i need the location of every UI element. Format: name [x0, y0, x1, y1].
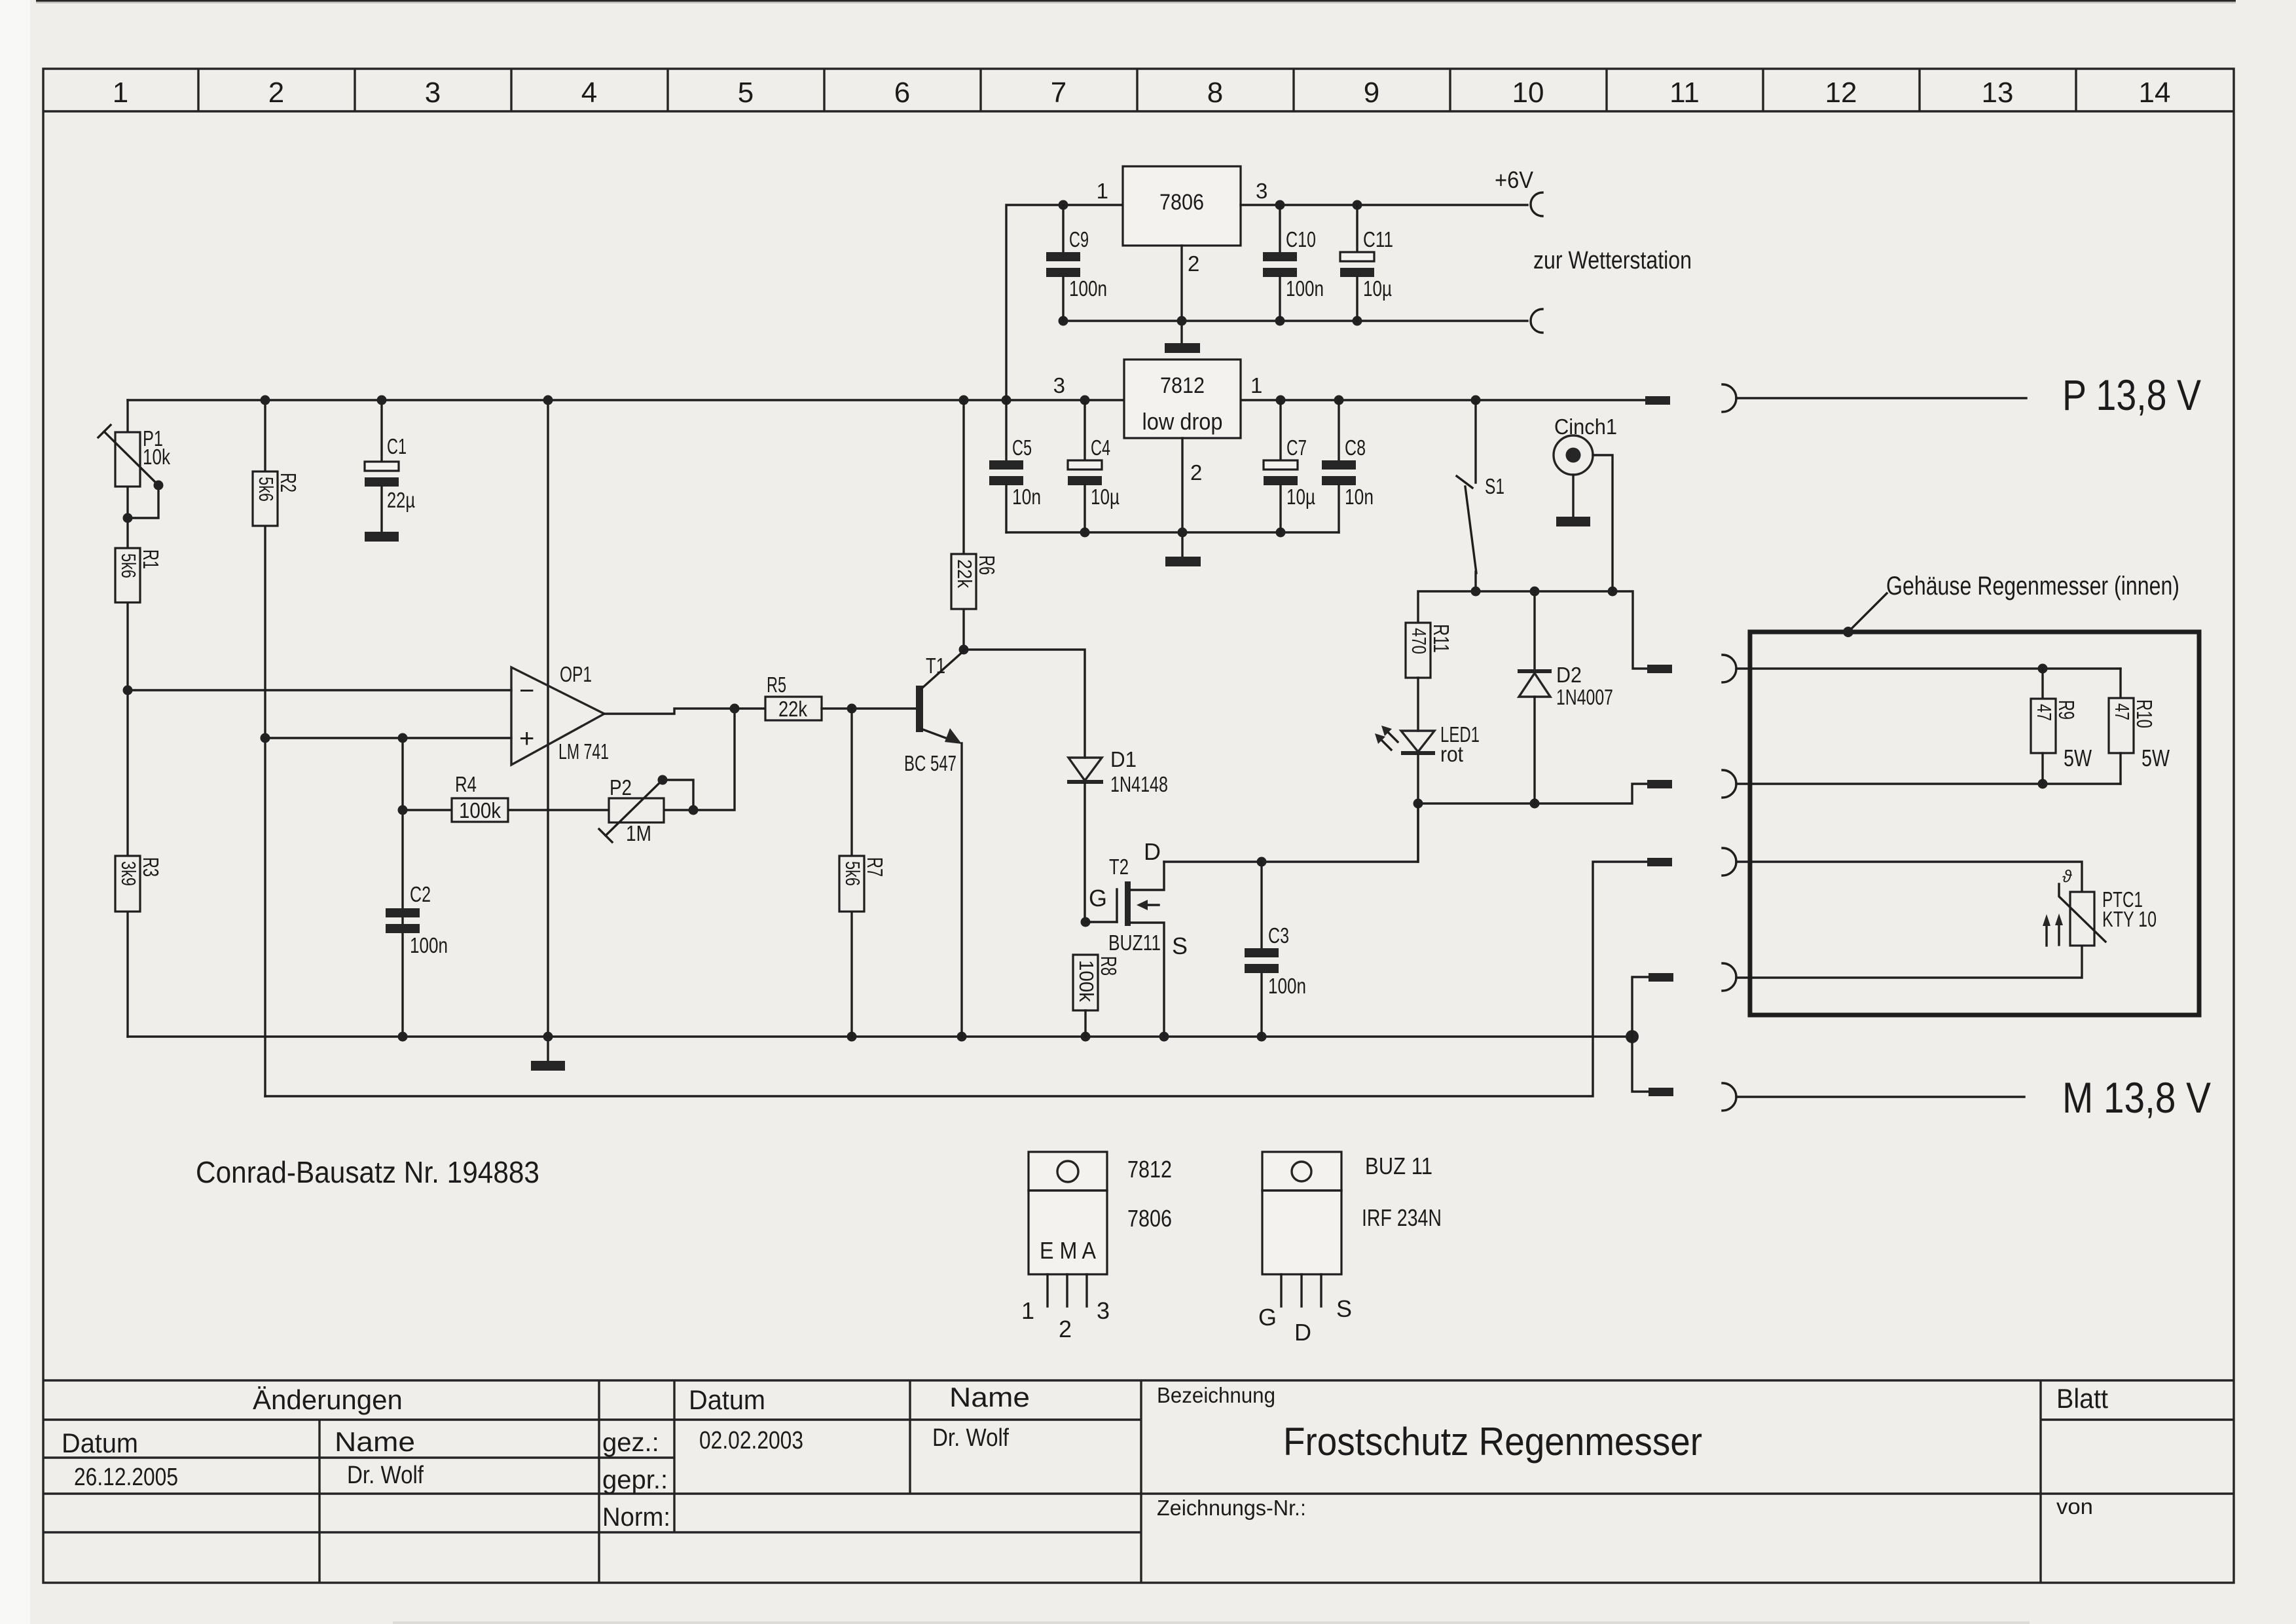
svg-text:5W: 5W [2141, 745, 2170, 771]
junction dots on ground rail [398, 1032, 408, 1042]
svg-text:C10: C10 [1286, 227, 1316, 251]
svg-text:G: G [1258, 1304, 1277, 1331]
capacitor C5 [989, 400, 1041, 532]
potentiometer P1 [98, 425, 170, 518]
connector stub ground B [1649, 1088, 1673, 1096]
connector arc M [1722, 848, 1736, 876]
capacitor C3 [1245, 862, 1306, 1037]
resistor R2 [253, 471, 301, 526]
svg-text:Norm:: Norm: [602, 1503, 670, 1532]
connector stub M rail [1647, 858, 1672, 866]
svg-text:2: 2 [1059, 1316, 1072, 1342]
connector stub ground A [1649, 973, 1673, 982]
svg-text:+6V: +6V [1495, 166, 1533, 193]
wire P rail left segment [128, 399, 1124, 401]
svg-text:47: 47 [2111, 703, 2134, 720]
svg-text:11: 11 [1669, 77, 1700, 109]
wire bottom ground rail [128, 1035, 1632, 1037]
junction C10 tap [1275, 200, 1285, 210]
wire 7806 pin2 to ground [1180, 246, 1182, 343]
svg-text:Zeichnungs-Nr.:: Zeichnungs-Nr.: [1157, 1496, 1306, 1520]
svg-text:gez.:: gez.: [602, 1428, 659, 1457]
svg-text:D2: D2 [1556, 663, 1582, 687]
wire R4 P2 feedback line [403, 709, 735, 810]
svg-text:D1: D1 [1110, 747, 1137, 771]
svg-text:ϑ: ϑ [2062, 866, 2072, 886]
svg-text:100n: 100n [1069, 276, 1107, 301]
capacitor C4 [1068, 400, 1120, 532]
connector stub R9 feed [1647, 665, 1672, 673]
wire R9 R10 top line [1736, 667, 2121, 669]
wire M connector to PTC1 [1736, 862, 2082, 892]
svg-text:R3: R3 [139, 857, 163, 877]
connector stub P rail [1645, 396, 1670, 405]
svg-text:C7: C7 [1286, 435, 1307, 460]
resistor R4 [452, 772, 508, 822]
svg-text:6: 6 [894, 77, 910, 109]
svg-text:−: − [519, 676, 534, 705]
junction P1 wiper tie [123, 513, 133, 523]
svg-text:C9: C9 [1069, 227, 1089, 251]
svg-text:26.12.2005: 26.12.2005 [74, 1464, 178, 1491]
junction S1 bottom [1471, 587, 1481, 597]
junction dots +6V sub rail [1059, 316, 1068, 326]
svg-text:R1: R1 [139, 549, 163, 569]
svg-text:7806: 7806 [1159, 190, 1204, 215]
svg-text:C8: C8 [1345, 435, 1366, 460]
connector arc ground B [1722, 1083, 1736, 1111]
junction plus tap R2 [261, 733, 270, 743]
svg-text:2: 2 [1190, 460, 1202, 485]
resistor R5 [765, 673, 822, 721]
svg-text:R7: R7 [863, 857, 887, 877]
resistor R1 [115, 548, 163, 602]
wire ground to stub A [1632, 977, 1649, 1037]
svg-text:low drop: low drop [1142, 408, 1223, 435]
junction R9 top [2038, 664, 2048, 674]
svg-text:14: 14 [2139, 77, 2171, 109]
svg-text:Frostschutz Regenmesser: Frostschutz Regenmesser [1283, 1420, 1702, 1464]
svg-text:G: G [1089, 885, 1107, 912]
svg-text:22µ: 22µ [387, 488, 415, 512]
wire collector node to D1 [964, 650, 1085, 758]
svg-text:R8: R8 [1097, 956, 1121, 976]
svg-text:D: D [1144, 838, 1161, 865]
ground symbol at OP1 supply [531, 1037, 565, 1071]
svg-text:zur Wetterstation: zur Wetterstation [1533, 247, 1692, 274]
resistor R3 [115, 856, 163, 912]
resistor R11 [1406, 623, 1453, 731]
svg-text:+: + [519, 724, 534, 753]
wire R7 branch vertical [850, 709, 852, 1037]
svg-text:4: 4 [581, 77, 597, 109]
svg-text:Datum: Datum [62, 1428, 138, 1458]
svg-text:BUZ 11: BUZ 11 [1365, 1153, 1432, 1179]
svg-text:OP1: OP1 [560, 662, 592, 686]
svg-text:5: 5 [738, 77, 754, 109]
connector arc +6V return [1531, 309, 1542, 333]
LED LED1 rot [1375, 722, 1480, 803]
wire R9 R10 bottom line [1736, 783, 2121, 784]
junction minus tap [123, 686, 133, 695]
svg-text:5k6: 5k6 [255, 477, 278, 502]
diode D2 1N4007 [1518, 591, 1613, 803]
svg-text:3: 3 [1097, 1297, 1110, 1324]
junction base / R7 [847, 704, 857, 714]
resistor R9 [2031, 669, 2092, 784]
svg-text:5W: 5W [2064, 745, 2092, 771]
svg-text:10: 10 [1512, 77, 1544, 109]
svg-text:C3: C3 [1268, 923, 1289, 948]
svg-text:BC 547: BC 547 [904, 751, 957, 775]
svg-text:2: 2 [268, 77, 284, 109]
svg-text:BUZ11: BUZ11 [1108, 931, 1161, 955]
svg-text:Dr. Wolf: Dr. Wolf [347, 1462, 424, 1489]
wire OP1 output [604, 709, 765, 714]
svg-text:Name: Name [335, 1426, 415, 1457]
svg-text:C1: C1 [387, 434, 407, 458]
svg-text:100n: 100n [410, 933, 448, 957]
connector arc LED node [1722, 770, 1736, 798]
wire R2 branch vertical [264, 400, 266, 1096]
svg-text:47: 47 [2033, 704, 2056, 721]
svg-text:100n: 100n [1268, 974, 1306, 998]
junction R9 bottom [2038, 779, 2048, 789]
svg-text:1: 1 [1250, 373, 1262, 397]
ruler column dividers [198, 69, 2076, 111]
capacitor C1 [365, 400, 415, 532]
svg-text:1: 1 [1021, 1297, 1034, 1324]
connector arc P [1722, 384, 1736, 412]
ground bar under 7806 [1165, 343, 1200, 353]
regulator 7806 U1 [1097, 166, 1268, 276]
connector arc ground A [1722, 963, 1736, 991]
svg-text:Name: Name [949, 1382, 1030, 1412]
capacitor C7 [1264, 400, 1315, 532]
svg-text:1N4148: 1N4148 [1110, 772, 1168, 796]
svg-text:T2: T2 [1109, 855, 1129, 879]
junction dots caps sub rail [1080, 528, 1090, 538]
resistor R6 [951, 400, 999, 650]
svg-text:Cinch1: Cinch1 [1554, 415, 1617, 439]
connector stub LED node [1647, 780, 1672, 788]
wire P 13,8V out [1736, 397, 2026, 399]
op-amp OP1 [511, 662, 609, 765]
svg-text:von: von [2056, 1494, 2093, 1519]
svg-text:8: 8 [1207, 77, 1223, 109]
svg-text:R2: R2 [276, 473, 301, 492]
wire 7806 pin1 feed [1006, 205, 1123, 400]
junction LED bottom [1413, 799, 1423, 809]
wire ground to stub B [1632, 1037, 1649, 1092]
junction OP1 output / feedback [730, 704, 740, 714]
svg-text:S1: S1 [1485, 474, 1504, 498]
svg-text:10n: 10n [1345, 485, 1374, 509]
svg-text:R4: R4 [455, 772, 477, 796]
svg-text:gepr.:: gepr.: [602, 1466, 668, 1494]
svg-text:3: 3 [1256, 179, 1267, 203]
svg-text:R9: R9 [2054, 700, 2079, 720]
resistor R10 [2109, 669, 2170, 784]
svg-text:Dr. Wolf: Dr. Wolf [932, 1424, 1009, 1452]
resistor R8 [1073, 955, 1121, 1037]
capacitor C2 [386, 882, 448, 957]
svg-text:Änderungen: Änderungen [253, 1384, 403, 1415]
junction T2 gate / R8 [1081, 917, 1091, 927]
svg-text:7: 7 [1051, 77, 1066, 109]
junction Cinch drop [1608, 587, 1618, 597]
wire T2 drain line [1164, 803, 1418, 862]
wire minus input line [128, 689, 511, 691]
svg-text:2: 2 [1188, 251, 1199, 276]
svg-text:22k: 22k [778, 697, 807, 721]
svg-text:7806: 7806 [1127, 1205, 1172, 1232]
thermistor PTC1 KTY10 [2043, 866, 2157, 946]
junction D2 top [1530, 587, 1540, 597]
wire R5 to T1 base [822, 707, 916, 709]
junction D2 bottom [1530, 799, 1540, 809]
svg-text:rot: rot [1440, 742, 1463, 766]
svg-text:100k: 100k [459, 798, 501, 822]
svg-text:D: D [1294, 1319, 1311, 1346]
svg-text:Bezeichnung: Bezeichnung [1157, 1383, 1275, 1407]
ruler numbers 1-14 [113, 77, 2171, 109]
Gehaeuse pointer [1843, 593, 1887, 637]
wire LED D2 bottom line to connector [1418, 784, 1647, 803]
svg-text:P2: P2 [610, 775, 632, 800]
capacitor C11 [1340, 205, 1393, 321]
svg-text:10µ: 10µ [1286, 485, 1315, 509]
switch S1 [1457, 400, 1504, 591]
svg-text:470: 470 [1408, 628, 1430, 654]
junction R4 tap [398, 805, 408, 815]
wire plus input line [265, 737, 511, 739]
wire M rail [265, 862, 1647, 1096]
junction C11 tap [1353, 200, 1362, 210]
title block lines [43, 1380, 2234, 1583]
svg-text:3k9: 3k9 [117, 861, 140, 886]
connector arc +6V out [1531, 193, 1542, 216]
svg-text:10µ: 10µ [1091, 485, 1120, 509]
junction plus line / C2 branch [398, 733, 408, 743]
wire M 13,8V out [1736, 1096, 2024, 1098]
svg-text:C4: C4 [1091, 435, 1110, 460]
ground bar under 7812 [1165, 557, 1201, 566]
wire caps sub rail under 7812 [1006, 531, 1339, 533]
junction ground rail right end [1626, 1030, 1639, 1043]
svg-text:R11: R11 [1429, 624, 1453, 653]
svg-text:Conrad-Bausatz Nr. 194883: Conrad-Bausatz Nr. 194883 [196, 1155, 539, 1189]
svg-text:02.02.2003: 02.02.2003 [699, 1427, 803, 1454]
svg-text:LM 741: LM 741 [558, 739, 609, 764]
wire left chain vertical (P1/R1/R3) [126, 400, 128, 1037]
diode D1 1N4148 [1067, 747, 1168, 922]
svg-text:5k6: 5k6 [841, 861, 864, 886]
potentiometer P2 [599, 775, 699, 846]
svg-text:R5: R5 [767, 673, 786, 697]
transistor T1 BC547 [904, 651, 964, 1037]
svg-text:100k: 100k [1075, 960, 1098, 1002]
svg-text:3: 3 [425, 77, 441, 109]
svg-text:P 13,8 V: P 13,8 V [2062, 371, 2201, 419]
junction C9 tap [1059, 200, 1068, 210]
junction dots on P rail [261, 396, 270, 405]
regulator 7812 low drop U2 [1053, 360, 1263, 485]
wire S1 R11 D2 Cinch junction line [1418, 591, 1647, 669]
cinch socket Cinch1 [1554, 415, 1617, 591]
package TO220 regulators [1021, 1152, 1172, 1342]
wire +6V return sub rail [1063, 320, 1527, 322]
capacitor C9 [1046, 205, 1107, 321]
svg-text:IRF 234N: IRF 234N [1362, 1204, 1442, 1231]
svg-text:13: 13 [1982, 77, 2014, 109]
svg-text:9: 9 [1364, 77, 1379, 109]
svg-text:R10: R10 [2132, 699, 2157, 728]
svg-text:3: 3 [1053, 373, 1065, 397]
svg-text:1: 1 [113, 77, 128, 109]
svg-text:E M A: E M A [1040, 1237, 1096, 1264]
wire C2 branch vertical [401, 738, 403, 1037]
wire OP1 supply vertical [547, 400, 549, 1037]
svg-text:M 13,8 V: M 13,8 V [2062, 1073, 2211, 1122]
svg-text:R6: R6 [975, 555, 999, 575]
svg-text:C5: C5 [1012, 435, 1032, 460]
svg-text:S: S [1336, 1295, 1352, 1322]
svg-text:1N4007: 1N4007 [1556, 685, 1613, 709]
ground bar under Cinch1 [1556, 517, 1590, 526]
connector arc R9 feed [1722, 655, 1736, 682]
svg-text:12: 12 [1825, 77, 1857, 109]
svg-text:C11: C11 [1363, 227, 1393, 251]
package TO220 BUZ11 [1258, 1152, 1442, 1346]
wire PTC1 bottom to ground connector [1736, 946, 2082, 978]
svg-text:10n: 10n [1012, 485, 1041, 509]
svg-text:7812: 7812 [1127, 1156, 1172, 1183]
resistor R7 [839, 856, 887, 912]
wire P rail right segment [1241, 399, 1645, 401]
svg-text:100n: 100n [1286, 276, 1324, 301]
svg-text:5k6: 5k6 [117, 553, 140, 578]
ground bar under C1 [365, 532, 399, 542]
svg-text:C2: C2 [410, 882, 431, 906]
transistor T2 BUZ11 [1085, 838, 1188, 1037]
svg-text:T1: T1 [926, 654, 945, 678]
capacitor C10 [1263, 205, 1324, 321]
junction T1 collector [959, 645, 969, 655]
wire 7806 pin3 to +6V [1241, 204, 1527, 206]
svg-text:1: 1 [1097, 179, 1108, 203]
svg-text:Gehäuse Regenmesser (innen): Gehäuse Regenmesser (innen) [1886, 572, 2179, 600]
Gehaeuse box [1750, 632, 2199, 1015]
junction C3 tap on drain line [1257, 857, 1267, 867]
svg-text:KTY 10: KTY 10 [2102, 907, 2157, 931]
wire 7812 pin2 to ground [1181, 438, 1183, 557]
svg-text:10µ: 10µ [1363, 276, 1392, 301]
svg-text:22k: 22k [953, 559, 976, 588]
svg-text:1M: 1M [626, 821, 651, 845]
wire LED node to T2 drain line [1417, 803, 1419, 862]
svg-text:Blatt: Blatt [2056, 1383, 2108, 1414]
svg-text:7812: 7812 [1160, 373, 1205, 398]
svg-text:S: S [1172, 932, 1188, 959]
svg-text:10k: 10k [143, 445, 170, 469]
capacitor C8 [1322, 400, 1374, 532]
svg-text:Datum: Datum [689, 1384, 765, 1415]
